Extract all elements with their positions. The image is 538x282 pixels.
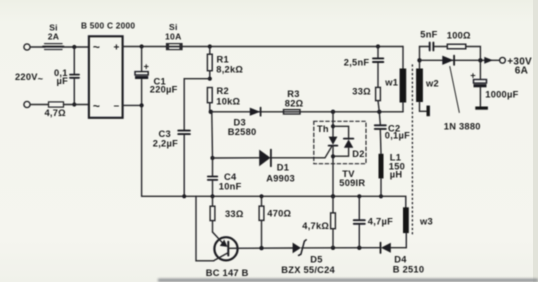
capacitor C2 0,1uF <box>375 112 386 154</box>
wire to C3 branch <box>184 79 210 130</box>
svg-text:2,2µF: 2,2µF <box>153 139 178 149</box>
capacitor 1000uF electrolytic <box>470 60 486 106</box>
node junction 4,7uF bottom <box>357 246 361 250</box>
svg-text:8,2kΩ: 8,2kΩ <box>216 64 243 74</box>
svg-text:C4: C4 <box>224 172 237 182</box>
label C3 2,2uF <box>153 129 178 149</box>
capacitor C1 220uF electrolytic <box>135 47 150 106</box>
wire ground rail <box>142 196 406 207</box>
label C1 220uF <box>150 77 178 95</box>
wire mid bus <box>210 111 403 113</box>
svg-text:B 500 C 2000: B 500 C 2000 <box>81 20 135 30</box>
label R2 10kohm <box>216 86 240 106</box>
resistor R1 8,2k <box>207 47 212 79</box>
svg-text:D4: D4 <box>394 254 407 264</box>
wire down to ground rail <box>141 105 143 196</box>
svg-text:BC 147 B: BC 147 B <box>206 268 249 278</box>
fuse Si 2A <box>43 44 64 50</box>
node junction thyristor branch <box>331 110 335 114</box>
wire top rail <box>182 46 403 48</box>
resistor R3 82ohm <box>284 110 301 114</box>
resistor 100ohm <box>447 44 480 60</box>
svg-text:2A: 2A <box>48 32 60 42</box>
svg-text:R3: R3 <box>287 89 299 99</box>
wire + output of bridge <box>123 46 167 48</box>
capacitor C4 10nF <box>208 158 218 196</box>
node junction gate branch <box>210 156 214 160</box>
rectifier bridge B500 C2000 <box>89 36 123 118</box>
svg-text:1N 3880: 1N 3880 <box>444 121 481 131</box>
svg-text:D2: D2 <box>352 149 364 159</box>
svg-text:5nF: 5nF <box>420 30 437 40</box>
wire <box>64 104 89 106</box>
wire <box>62 46 89 48</box>
svg-text:D3: D3 <box>234 117 246 127</box>
svg-text:BZX 55/C24: BZX 55/C24 <box>281 265 335 275</box>
label +30V 6A <box>507 56 532 76</box>
node junction L1 bottom <box>379 194 383 198</box>
svg-text:A9903: A9903 <box>266 173 295 183</box>
terminal end bar 1000uF <box>475 107 488 110</box>
resistor 33ohm emitter <box>210 196 215 232</box>
wire - output of bridge <box>123 104 142 106</box>
diode D3 B2580 <box>250 108 261 116</box>
label 1N 3880 with pointer <box>444 67 481 132</box>
node junction 2,5nF branch <box>376 44 380 48</box>
node junction <box>72 102 76 106</box>
svg-text:33Ω: 33Ω <box>225 209 244 219</box>
svg-text:509IR: 509IR <box>339 178 365 188</box>
svg-text:B2580: B2580 <box>228 127 257 137</box>
svg-text:6A: 6A <box>515 65 528 76</box>
node junction 470 bottom <box>259 246 263 250</box>
svg-text:D1: D1 <box>277 163 289 173</box>
svg-text:w1: w1 <box>384 78 398 88</box>
svg-text:0,1µF: 0,1µF <box>385 130 410 140</box>
transistor Q1 BC147B <box>213 232 238 261</box>
svg-text:R2: R2 <box>217 86 229 96</box>
svg-text:4,7kΩ: 4,7kΩ <box>302 221 329 231</box>
svg-text:B 2510: B 2510 <box>393 264 424 274</box>
svg-text:~: ~ <box>93 40 100 54</box>
label D4 B2510 <box>393 254 424 274</box>
label R1 8,2kohm <box>216 55 243 75</box>
capacitor C3 2,2uF <box>178 131 190 197</box>
svg-text:D5: D5 <box>310 254 322 264</box>
winding w1 <box>400 47 407 112</box>
terminal output +30V <box>500 57 506 63</box>
label 0,1 uF <box>54 68 68 86</box>
diode 1N3880 <box>442 56 454 65</box>
winding w2 <box>416 47 423 103</box>
node junction R1 top <box>208 44 212 48</box>
wire output rail <box>420 59 500 61</box>
capacitor 2,5nF <box>373 47 383 88</box>
svg-text:10nF: 10nF <box>219 182 242 192</box>
node junction 4,7k bottom <box>331 246 335 250</box>
wire D2 branch top <box>333 126 349 138</box>
wire collector to ground rail <box>196 196 214 260</box>
wire gate line <box>213 157 260 159</box>
node junction <box>72 45 76 49</box>
terminal input bottom <box>24 101 30 107</box>
capacitor 0,1uF <box>70 47 79 105</box>
transformer core dashed line <box>411 65 413 236</box>
svg-text:4,7µF: 4,7µF <box>368 217 393 227</box>
diode D1 A9903 <box>259 150 271 167</box>
label Si 10A <box>165 22 182 42</box>
node junction output <box>478 58 482 62</box>
svg-text:10A: 10A <box>165 31 182 41</box>
node junction 470 top <box>259 194 263 198</box>
inductor L1 150uH <box>379 154 384 197</box>
resistor 4,7kohm <box>331 196 336 248</box>
svg-text:Th: Th <box>317 124 329 134</box>
label C4 10nF <box>219 172 242 192</box>
svg-text:Si: Si <box>169 22 178 32</box>
svg-text:C3: C3 <box>159 129 171 139</box>
svg-text:1000µF: 1000µF <box>485 90 518 100</box>
node junction <box>140 44 144 48</box>
label R3 82ohm <box>285 89 304 109</box>
svg-text:~: ~ <box>93 99 100 113</box>
node junction C2 branch <box>377 110 381 114</box>
node junction thyristor anode / D2 <box>331 124 335 128</box>
wire w2 bottom stub <box>420 102 427 111</box>
terminal w2 end bar <box>427 106 430 117</box>
resistor R2 10k <box>207 88 212 112</box>
label D3 B2580 <box>228 117 257 136</box>
label TV 509IR <box>339 169 365 188</box>
node junction D2 return <box>331 154 335 158</box>
terminal input top <box>24 44 30 50</box>
svg-text:w3: w3 <box>419 217 433 227</box>
label Si 2A <box>48 22 60 41</box>
svg-text:220µF: 220µF <box>150 84 178 94</box>
resistor 470ohm <box>259 196 264 248</box>
wire bottom rail <box>302 247 381 249</box>
node junction <box>140 103 144 107</box>
node junction R2 bottom <box>209 110 213 114</box>
capacitor C4 10nF column wire <box>211 112 214 158</box>
svg-text:470Ω: 470Ω <box>267 209 291 219</box>
fuse Si 10A <box>167 44 183 50</box>
node junction C4 bottom <box>210 194 214 198</box>
node junction 4,7uF top <box>357 194 361 198</box>
svg-text:82Ω: 82Ω <box>285 99 304 109</box>
svg-text:+: + <box>144 62 150 72</box>
svg-text:4,7Ω: 4,7Ω <box>45 108 67 118</box>
diode D4 B2510 <box>381 243 407 253</box>
node junction C3 bottom <box>182 194 186 198</box>
resistor 4,7 ohm <box>49 102 64 107</box>
capacitor 5nF <box>430 43 448 51</box>
node junction R1/R2 <box>208 77 212 81</box>
wire <box>30 104 48 106</box>
node junction w2 top <box>417 58 421 62</box>
thyristor Th TV509IR <box>329 112 338 197</box>
capacitor 4,7uF <box>354 196 365 248</box>
label C2 0,1uF <box>385 123 410 140</box>
page-edge smudge bottom <box>158 279 538 282</box>
svg-text:–: – <box>114 100 120 111</box>
svg-text:100Ω: 100Ω <box>447 31 471 41</box>
dashed box thyristor module <box>314 121 366 163</box>
wire <box>30 46 45 48</box>
svg-text:w2: w2 <box>425 78 439 88</box>
svg-text:µF: µF <box>57 76 69 86</box>
node junction thyristor cathode <box>331 194 335 198</box>
svg-text:33Ω: 33Ω <box>352 87 371 97</box>
svg-text:R1: R1 <box>217 55 229 65</box>
wire 5nF branch top <box>420 46 429 48</box>
svg-text:+: + <box>113 43 119 54</box>
svg-text:µH: µH <box>390 169 403 179</box>
arrow current direction <box>484 57 493 64</box>
label D5 BZX55/C24 <box>281 254 335 274</box>
diode D2 <box>333 139 353 157</box>
resistor 33ohm snubber <box>376 87 381 111</box>
label D1 A9903 <box>266 163 295 184</box>
zener D5 BZX55/C24 <box>293 240 307 256</box>
winding w3 <box>403 207 409 247</box>
wire base lead <box>228 247 292 249</box>
wire gate line to thyristor <box>272 147 332 158</box>
svg-text:2,5nF: 2,5nF <box>344 57 370 67</box>
svg-text:10kΩ: 10kΩ <box>216 96 240 106</box>
label L1 150uH <box>389 153 405 180</box>
